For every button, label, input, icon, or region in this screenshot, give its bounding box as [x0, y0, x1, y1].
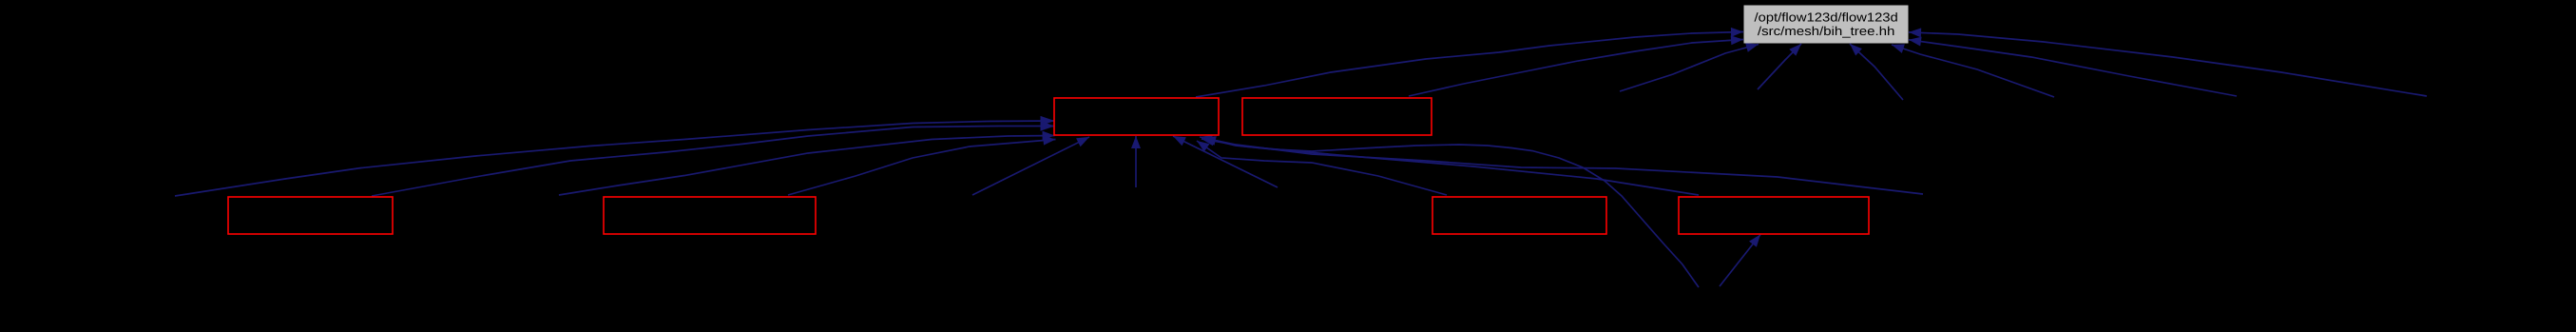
node B1 (bottom far left) (red box): [228, 197, 393, 234]
edge stub s6 -> bih_tree.hh (right edge, upper): [1909, 28, 2427, 96]
node B3 (bottom right) (red box): [1432, 197, 1606, 234]
edge I5 -> hub bottom-right (long swoop): [1200, 135, 1923, 194]
node hub (middle left) (red box): [1054, 98, 1219, 135]
edge stub s5 -> bih_tree.hh (right edge, lower): [1909, 37, 2237, 96]
edge I2 -> B4 bottom: [1720, 235, 1760, 287]
edge I1 -> hub (left edge big arrow, upper): [175, 116, 1055, 196]
edge hub top -> bih_tree.hh (left edge, upper): [1196, 28, 1743, 97]
edge (1344,197) -> hub bottom: [1173, 136, 1278, 187]
edge B4 top-left -> hub bottom-right: [1201, 136, 1699, 195]
edge stub s3 -> bih_tree.hh bottom: [1850, 44, 1903, 100]
edge B3 top-left -> hub bottom-right: [1197, 141, 1447, 195]
edge stub s2 -> bih_tree.hh bottom: [1758, 44, 1801, 89]
edge below hub -> hub bottom (short vertical): [1131, 136, 1141, 187]
edge M2 top -> bih_tree.hh (left edge, lower): [1409, 35, 1743, 96]
edge B2 top -> hub (bottom-left corner arrow, lower): [788, 136, 1056, 195]
node M2 (middle right) (red box): [1242, 98, 1432, 135]
edge stub s4 -> bih_tree.hh (bottom-right corner): [1892, 44, 2054, 97]
edge I3 -> hub (bottom-left corner arrow, upper): [559, 131, 1055, 195]
edge B1 top -> hub (left edge big arrow, lower): [372, 121, 1055, 196]
node B4 (bottom far right) (red box): [1679, 197, 1869, 234]
node B2 (bottom left) (red box): [604, 197, 816, 234]
node /opt/flow123d/flow123d/src/mesh/bih_tree.hh (grey filled box): [1744, 6, 1909, 44]
edge I4 -> hub bottom: [972, 137, 1089, 195]
edge stub s1 -> bih_tree.hh (bottom-left corner): [1620, 43, 1759, 91]
edge I2 -> hub (hump over B3 then dive to V-point): [1203, 136, 1699, 287]
